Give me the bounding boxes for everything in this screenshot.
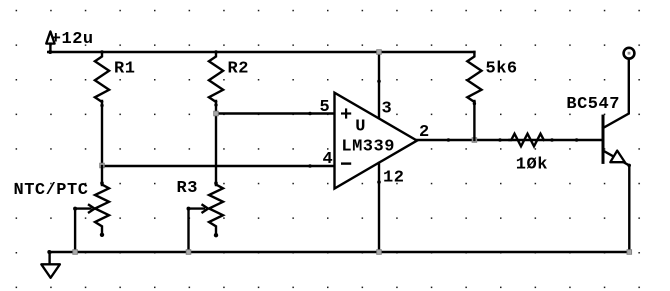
svg-text:12: 12 (383, 168, 404, 187)
svg-text:BC547: BC547 (566, 95, 620, 114)
wire pin 3 (378, 52, 380, 118)
wire R1 bottom (101, 101, 103, 166)
wire node A to NTC top (101, 166, 103, 185)
wire R2 bottom to R3 (215, 101, 217, 185)
collector wire (603, 60, 629, 128)
svg-text:3: 3 (382, 100, 393, 119)
svg-text:R2: R2 (228, 59, 249, 78)
svg-text:5k6: 5k6 (486, 59, 518, 78)
wire output pin 2 to Q1 base (416, 139, 602, 141)
svg-text:U: U (355, 118, 366, 137)
wire top +12V rail (48, 51, 474, 53)
svg-text:1Øk: 1Øk (516, 156, 548, 175)
junction node B (214, 111, 219, 116)
emitter wire (603, 151, 629, 253)
resistor 10k (510, 134, 548, 175)
svg-text:R3: R3 (177, 179, 198, 198)
junction node A (100, 163, 105, 168)
svg-text:LM339: LM339 (341, 137, 395, 156)
potentiometer R3 (177, 179, 224, 252)
wire pin 12 (378, 163, 380, 252)
wiper NTC/PTC (75, 209, 90, 252)
wire node A to pin 4 (102, 165, 335, 167)
junction wiper1/rail (73, 250, 78, 255)
svg-text:5: 5 (320, 98, 331, 117)
junction pin12/rail (377, 250, 382, 255)
wire bottom ground rail (49, 251, 629, 253)
svg-text:+12u: +12u (51, 30, 94, 49)
emitter arrow (610, 151, 625, 163)
svg-text:R1: R1 (114, 59, 135, 78)
ground (41, 252, 60, 278)
resistor R2 (209, 50, 249, 106)
terminal (collector output) (624, 48, 635, 59)
resistor R1 (95, 50, 136, 107)
op-amp U LM339 (320, 93, 430, 189)
svg-text:NTC/PTC: NTC/PTC (14, 181, 89, 200)
potentiometer NTC/PTC (14, 181, 110, 252)
wiper R3 (189, 209, 205, 252)
transistor Q1 BC547 (566, 60, 631, 252)
junction wiper2/rail (186, 250, 191, 255)
resistor 5k6 (467, 52, 517, 140)
junction pin3/rail (377, 50, 382, 55)
wire node B to pin 5 (216, 112, 335, 114)
junction output/5k6 (472, 138, 477, 143)
junction emitter/rail (627, 250, 632, 255)
svg-text:4: 4 (323, 150, 334, 169)
power symbol +12V (46, 30, 93, 54)
